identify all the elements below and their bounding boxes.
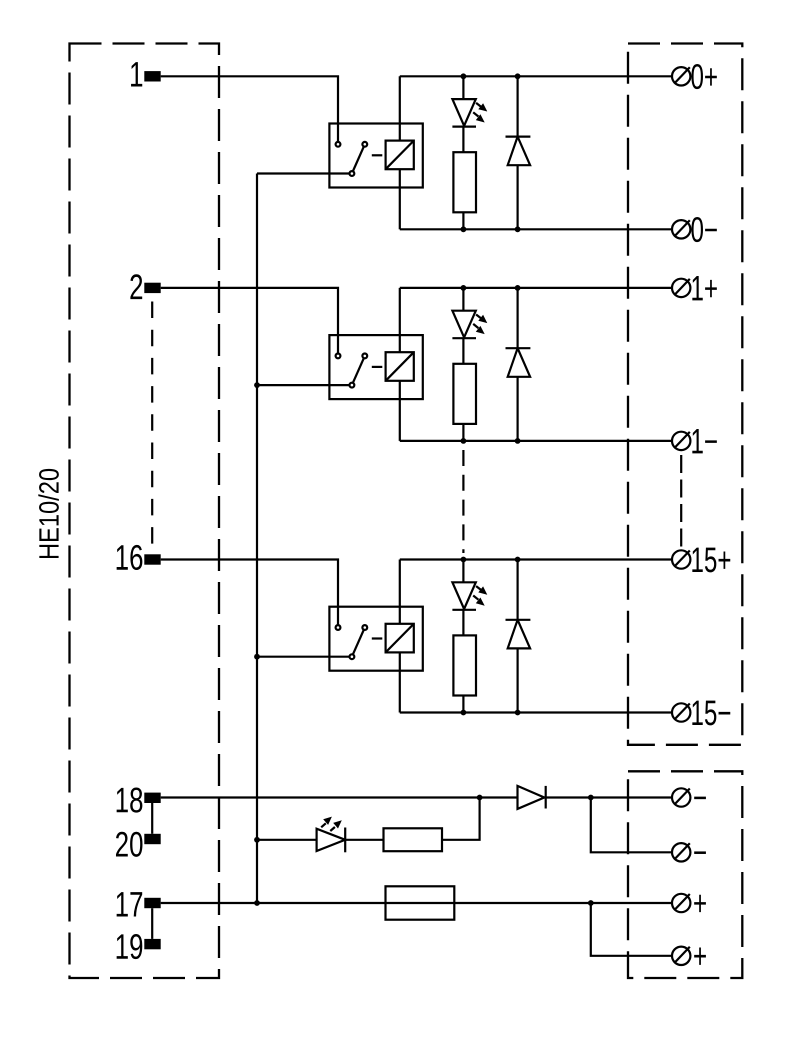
- LED indicator (green): [317, 829, 346, 851]
- pin 19 label: [117, 934, 143, 959]
- bus node ch2: [254, 382, 260, 388]
- node LED branch joins: [477, 795, 483, 801]
- terminal minus 1: [672, 788, 690, 806]
- pin 20 pad: [144, 834, 160, 844]
- pin 19 pad: [144, 939, 160, 949]
- terminal plus 1: [672, 894, 690, 912]
- LED emission arrows: [321, 817, 342, 831]
- terminal 15- label: [692, 701, 730, 726]
- label HE10/20: [38, 469, 59, 558]
- bus node LED branch: [254, 837, 260, 843]
- strap 17-19: [151, 908, 153, 939]
- terminal 0+ label: [691, 64, 716, 89]
- wire LED to resistor: [345, 839, 383, 841]
- pin 17 pad: [144, 898, 160, 908]
- node minus split: [588, 795, 594, 801]
- wire pin 17 to plus terminals: [161, 902, 672, 904]
- pin 18 pad: [144, 793, 160, 803]
- pin 20 label: [116, 832, 143, 857]
- terminal minus 2: [672, 843, 690, 861]
- bus node pin17 wire: [254, 900, 260, 906]
- terminal 1+ label: [692, 276, 716, 300]
- wire to second plus terminal: [591, 903, 671, 956]
- node plus split: [588, 900, 594, 906]
- wire resistor up to pin18 wire: [442, 798, 480, 840]
- connector HE10/20 dashed outline: [70, 44, 220, 979]
- resistor (LED series): [384, 828, 443, 851]
- wire diode to terminals: [544, 796, 671, 798]
- wire to second minus terminal: [591, 798, 671, 853]
- fuse F: [386, 886, 455, 919]
- pin 1 label: [131, 62, 142, 86]
- wire bus to LED: [257, 839, 317, 841]
- terminal 0- label: [691, 217, 716, 242]
- pin 18 label: [117, 788, 143, 813]
- terminal 1- label: [692, 429, 717, 453]
- pin 16 label: [117, 545, 143, 570]
- dashed continuation LED chains: [462, 450, 464, 553]
- wire pin 18 to diode: [161, 796, 518, 798]
- channel 2 (pin 2, relay K2, terminals 1+/1-): [144, 279, 690, 450]
- pin 2 label: [130, 274, 142, 299]
- terminal plus label 2: [694, 948, 706, 965]
- terminal minus label 2: [694, 851, 706, 854]
- channel 16 (pin 16, relay K16, terminals 15+/15-): [144, 550, 690, 721]
- terminal block dashed outline bottom: [628, 771, 742, 978]
- terminal plus 2: [672, 947, 690, 965]
- terminal minus label 1: [694, 797, 706, 800]
- diode D (minus feed): [518, 786, 545, 809]
- terminal block dashed outline top: [628, 44, 742, 745]
- channel 1 (pin 1, relay K1, terminals 0+/0-): [144, 67, 690, 238]
- dashed continuation pins 2..16: [151, 302, 153, 547]
- strap 18-20: [151, 803, 153, 834]
- pin 17 label: [117, 892, 143, 916]
- terminal plus label 1: [694, 895, 706, 912]
- bus node ch16: [254, 654, 260, 660]
- common bus: [256, 174, 258, 904]
- terminal 15+ label: [692, 548, 730, 573]
- dashed continuation terminals 1- .. 15+: [680, 455, 682, 548]
